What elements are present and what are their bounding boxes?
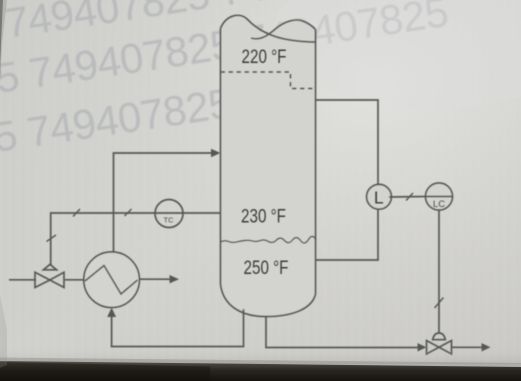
column vessel body — [221, 15, 316, 316]
TC controller circle — [155, 200, 183, 228]
signal slash on valve stem — [47, 235, 57, 242]
exchanger outlet line — [139, 278, 170, 280]
tray dashed line — [221, 72, 316, 89]
exchanger bottom inlet line — [111, 316, 113, 347]
LC to valve signal line — [438, 210, 440, 333]
arrow into exchanger bottom — [107, 308, 116, 318]
L to LC signal line — [389, 196, 426, 199]
heat exchanger coil zigzag — [85, 266, 138, 295]
LC panel line — [426, 196, 453, 198]
bottoms product line — [452, 346, 483, 348]
reboiler return line to column — [114, 153, 213, 253]
bottoms to reboiler pipe — [111, 309, 244, 347]
feed valve actuator — [43, 264, 58, 270]
svg-text:220 °F: 220 °F — [242, 45, 287, 67]
level controller LC circle — [426, 183, 453, 210]
svg-text:LC: LC — [433, 199, 445, 210]
signal slash on TC line 2 — [125, 209, 132, 216]
bottoms valve actuator — [433, 333, 446, 340]
level bottom tap line — [316, 209, 379, 261]
column left wall — [220, 29, 222, 285]
signal slash L-LC — [406, 193, 413, 201]
column top break curve B — [251, 20, 316, 39]
signal slash LC-valve — [435, 298, 444, 309]
bottoms valve LV bowtie — [427, 341, 452, 355]
glare wash top right — [272, 0, 521, 109]
column top break curve A — [221, 15, 316, 42]
photo dark bottom edge — [0, 348, 521, 364]
svg-text:TC: TC — [164, 216, 175, 225]
feed line to exchanger — [65, 279, 84, 281]
arrow bottoms line into valve — [418, 343, 427, 351]
liquid level wavy line — [221, 236, 317, 243]
arrow into column (reboiler return) — [211, 149, 221, 157]
signal slash on TC line 1 — [73, 209, 80, 217]
TC measurement line — [51, 213, 221, 265]
feed line left — [9, 279, 36, 281]
heat exchanger E1 circle — [84, 252, 140, 308]
arrow exchanger outlet — [170, 275, 180, 283]
photo dark left edge — [0, 0, 3, 68]
bottoms outlet pipe — [266, 316, 418, 348]
arrow bottoms product out — [482, 343, 491, 351]
svg-text:230 °F: 230 °F — [241, 205, 286, 227]
level top tap line — [316, 100, 379, 187]
level transmitter L circle — [367, 184, 392, 209]
feed valve FV bowtie — [35, 272, 64, 287]
svg-text:250 °F: 250 °F — [244, 256, 289, 278]
svg-text:L: L — [374, 187, 384, 207]
column bottom dome — [221, 284, 316, 317]
column right wall — [315, 30, 317, 295]
